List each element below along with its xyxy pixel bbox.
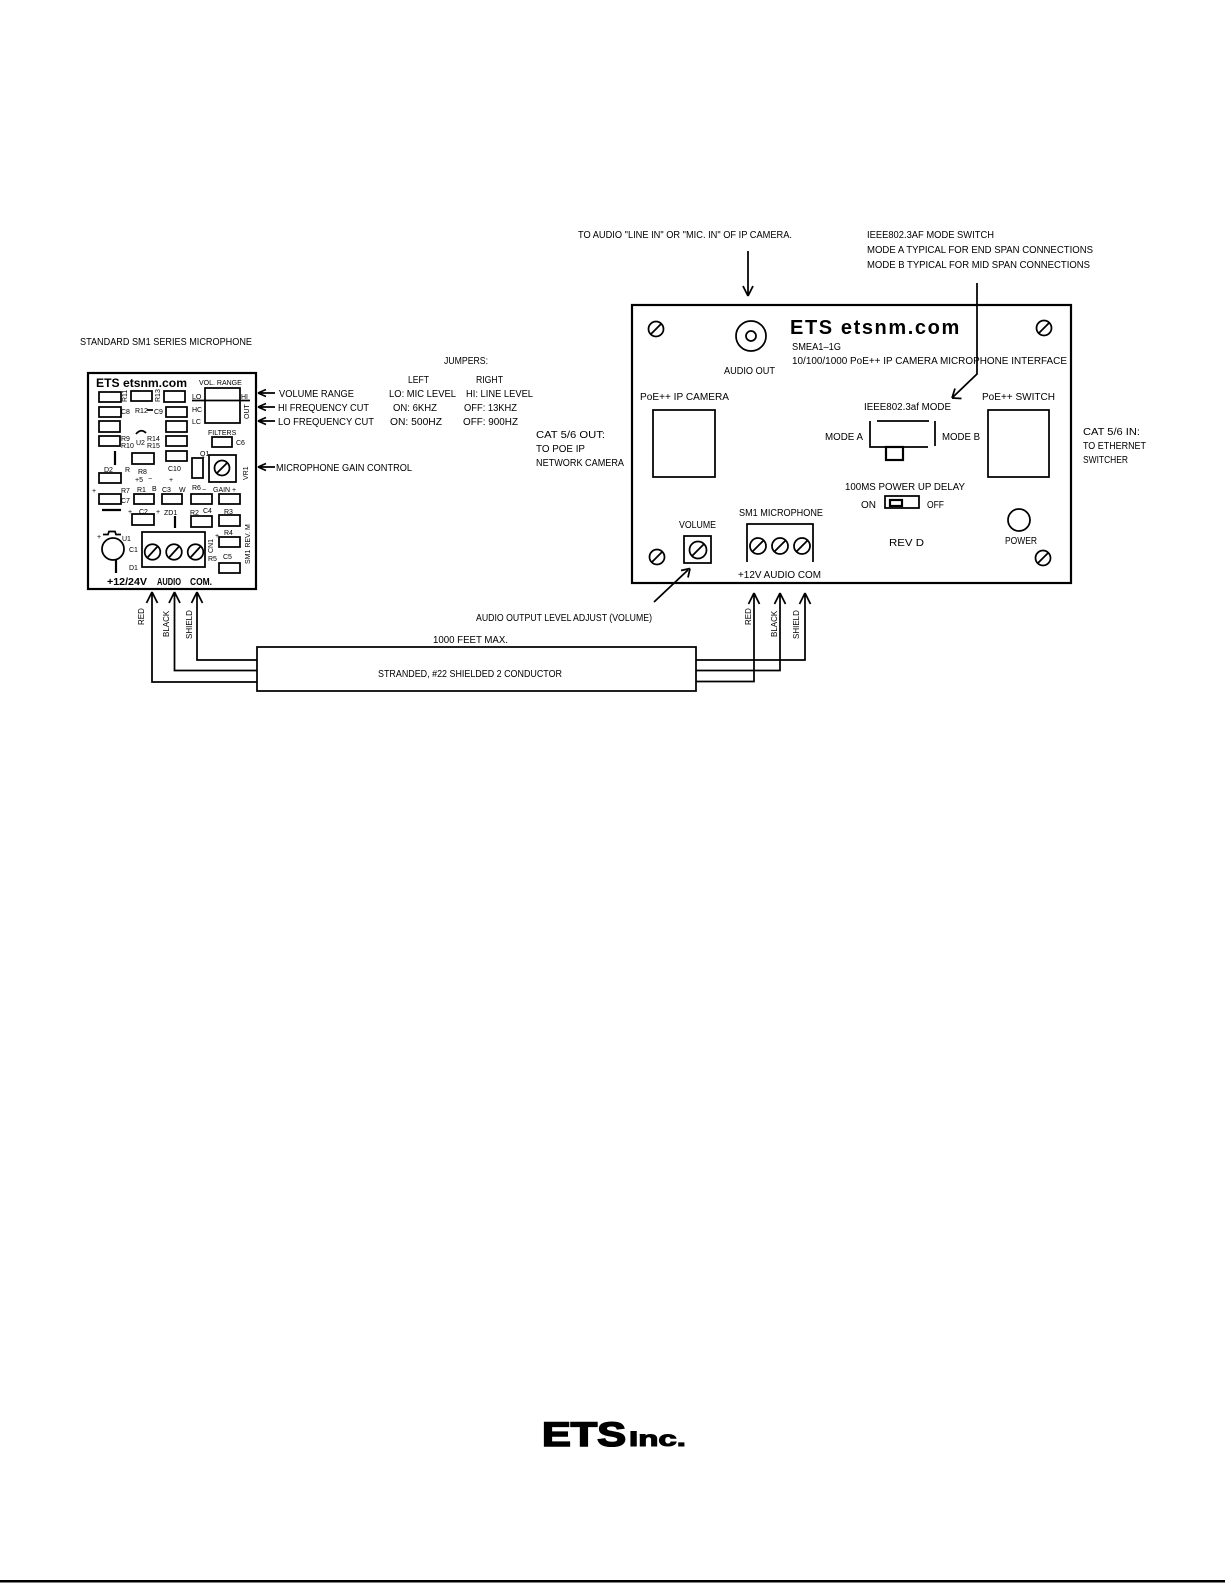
resistors R9 R10 U2 R14 R15 — [99, 431, 187, 450]
svg-text:ON: 6KHZ: ON: 6KHZ — [393, 403, 437, 414]
svg-text:100MS POWER UP DELAY: 100MS POWER UP DELAY — [845, 482, 965, 493]
svg-text:RED: RED — [744, 608, 753, 625]
svg-text:−: − — [148, 476, 152, 483]
PoE++ IP camera jack — [640, 392, 729, 477]
svg-text:OUT: OUT — [244, 404, 251, 420]
resistor R4 — [219, 530, 240, 547]
wire black right — [696, 593, 786, 671]
SM1 microphone PCB outline — [88, 373, 256, 589]
resistor R2 capacitor C4 — [190, 508, 212, 527]
screw bottom-left — [650, 550, 665, 565]
note: to audio line-in of IP camera — [578, 230, 792, 241]
svg-text:BLACK: BLACK — [770, 610, 779, 637]
svg-text:LO: MIC LEVEL: LO: MIC LEVEL — [389, 389, 456, 400]
svg-text:ETS etsnm.com: ETS etsnm.com — [790, 317, 961, 339]
wire leader arrow down to AUDIO OUT — [743, 251, 753, 296]
svg-text:AUDIO OUTPUT LEVEL ADJUST (VOL: AUDIO OUTPUT LEVEL ADJUST (VOLUME) — [476, 613, 652, 624]
svg-text:1000 FEET MAX.: 1000 FEET MAX. — [433, 635, 508, 646]
svg-text:B: B — [152, 486, 157, 493]
capacitor C3 — [162, 487, 186, 504]
svg-text:C8: C8 — [121, 409, 130, 416]
silkscreen title ETS etsnm.com — [790, 317, 1067, 367]
terminal screw +12V — [750, 538, 766, 554]
svg-text:MODE B TYPICAL FOR MID SPAN CO: MODE B TYPICAL FOR MID SPAN CONNECTIONS — [867, 260, 1090, 271]
svg-text:R13: R13 — [155, 389, 162, 402]
screw top-right — [1037, 321, 1052, 336]
screw top-left — [649, 322, 664, 337]
silkscreen SM1 REV M — [245, 524, 252, 564]
wire label red left — [137, 608, 146, 625]
annotation arrow microphone gain control — [258, 463, 412, 474]
svg-text:R10: R10 — [121, 443, 134, 450]
svg-text:TO POE IP: TO POE IP — [536, 444, 585, 455]
svg-text:+: + — [232, 487, 236, 494]
svg-text:SM1 REV. M: SM1 REV. M — [245, 524, 252, 564]
svg-text:IEEE802.3af MODE: IEEE802.3af MODE — [864, 402, 951, 413]
svg-text:C7: C7 — [121, 498, 130, 505]
svg-text:R: R — [125, 467, 130, 474]
svg-text:HI FREQUENCY CUT: HI FREQUENCY CUT — [278, 403, 369, 414]
silkscreen REV D — [889, 538, 924, 549]
note: standard SM1 series microphone — [80, 337, 252, 348]
svg-text:HC: HC — [192, 407, 202, 414]
annotation arrow volume range — [258, 389, 354, 400]
svg-text:VR1: VR1 — [243, 466, 250, 480]
wire shield right — [696, 593, 811, 660]
svg-text:ETS etsnm.com: ETS etsnm.com — [96, 376, 187, 390]
svg-text:AUDIO OUT: AUDIO OUT — [724, 366, 775, 377]
svg-text:JUMPERS:: JUMPERS: — [444, 356, 488, 367]
svg-text:LO FREQUENCY CUT: LO FREQUENCY CUT — [278, 417, 374, 428]
gain trimmer VR1 — [209, 455, 250, 482]
svg-text:R4: R4 — [224, 530, 233, 537]
svg-text:ON: 500HZ: ON: 500HZ — [390, 417, 442, 428]
power LED — [1005, 509, 1037, 547]
svg-text:U1: U1 — [122, 536, 131, 543]
svg-text:+: + — [92, 488, 96, 495]
svg-text:C4: C4 — [203, 508, 212, 515]
filler rects row3 — [99, 421, 187, 432]
svg-text:R11: R11 — [122, 390, 129, 402]
transistor Q1 — [192, 451, 209, 478]
jumpers table — [389, 356, 533, 428]
svg-text:COM.: COM. — [190, 577, 212, 588]
svg-text:C10: C10 — [168, 466, 181, 473]
PCB terminal block CN1 — [142, 532, 205, 567]
wire dash — [102, 509, 121, 511]
PCB terminal screw 2 — [166, 544, 182, 560]
svg-text:VOLUME RANGE: VOLUME RANGE — [279, 389, 354, 400]
svg-text:RED: RED — [137, 608, 146, 625]
wire label black left — [162, 610, 171, 637]
electrolytic capacitor U1/C1 — [97, 532, 138, 574]
silkscreen +5 - + — [135, 476, 173, 484]
svg-text:ZD1: ZD1 — [164, 510, 177, 517]
capacitor C7 — [92, 488, 130, 505]
resistor R3 — [219, 509, 240, 526]
filters jumper — [208, 430, 245, 447]
svg-text:D1: D1 — [129, 565, 138, 572]
PCB terminal labels — [107, 577, 212, 588]
resistor R1 — [134, 486, 157, 504]
note: audio output level adjust — [476, 569, 690, 625]
annotation arrow hi frequency cut — [258, 403, 369, 414]
resistor R6 and gain — [191, 485, 240, 504]
svg-text:C6: C6 — [236, 440, 245, 447]
svg-text:C9: C9 — [154, 409, 163, 416]
capacitor C8 R12 C9 row — [99, 407, 187, 417]
svg-text:W: W — [179, 487, 186, 494]
svg-text:Q1: Q1 — [200, 451, 209, 458]
svg-text:NETWORK CAMERA: NETWORK CAMERA — [536, 458, 624, 469]
svg-text:R5: R5 — [208, 556, 217, 563]
svg-text:AUDIO: AUDIO — [157, 577, 181, 588]
svg-text:CN1: CN1 — [208, 539, 215, 553]
svg-text:STRANDED, #22 SHIELDED 2 CONDU: STRANDED, #22 SHIELDED 2 CONDUCTOR — [378, 669, 562, 680]
note: IEEE802.3AF mode switch — [867, 230, 1093, 271]
terminal labels — [738, 570, 821, 581]
svg-text:HI: LINE LEVEL: HI: LINE LEVEL — [466, 389, 533, 400]
diode D2 — [99, 467, 121, 483]
svg-text:C5: C5 — [223, 554, 232, 561]
svg-text:R1: R1 — [137, 487, 146, 494]
svg-text:IEEE802.3AF MODE SWITCH: IEEE802.3AF MODE SWITCH — [867, 230, 994, 241]
svg-text:R15: R15 — [147, 443, 160, 450]
svg-text:SHIELD: SHIELD — [792, 610, 801, 639]
resistor R5 capacitor C5 — [208, 554, 240, 573]
svg-text:+: + — [169, 477, 173, 484]
svg-text:+: + — [156, 509, 160, 516]
capacitor C10 rect — [166, 451, 187, 473]
svg-text:MODE B: MODE B — [942, 432, 980, 443]
audio out jack J1 — [724, 321, 775, 377]
svg-text:MICROPHONE GAIN CONTROL: MICROPHONE GAIN CONTROL — [276, 463, 412, 474]
wire label red right — [744, 608, 753, 625]
svg-text:TO ETHERNET: TO ETHERNET — [1083, 441, 1146, 452]
wire black left — [169, 592, 257, 671]
svg-text:R9: R9 — [121, 436, 130, 443]
svg-text:LO: LO — [192, 394, 202, 401]
svg-text:OFF: OFF — [927, 500, 944, 511]
wire label shield left — [185, 610, 194, 639]
zener ZD1 — [156, 509, 177, 528]
svg-text:U2: U2 — [136, 440, 145, 447]
svg-text:STANDARD SM1 SERIES MICROPHONE: STANDARD SM1 SERIES MICROPHONE — [80, 337, 252, 348]
footer rule — [0, 1580, 1225, 1583]
screw bottom-right — [1036, 551, 1051, 566]
terminal screw AUDIO — [772, 538, 788, 554]
wire red right — [696, 593, 760, 682]
volume potentiometer VR — [679, 520, 716, 563]
PCB silkscreen ETS etsnm.com — [96, 376, 187, 390]
svg-text:SHIELD: SHIELD — [185, 610, 194, 639]
svg-text:+5: +5 — [135, 477, 143, 484]
wire label black right — [770, 610, 779, 637]
svg-text:C3: C3 — [162, 487, 171, 494]
interface unit SMEA1-1G enclosure — [632, 305, 1071, 583]
power up delay switch SW2 — [845, 482, 965, 511]
svg-text:ETS: ETS — [542, 1416, 626, 1454]
svg-text:MODE A: MODE A — [825, 432, 863, 443]
svg-text:OFF: 900HZ: OFF: 900HZ — [463, 417, 518, 428]
svg-text:VOL. RANGE: VOL. RANGE — [199, 380, 242, 387]
svg-text:GAIN: GAIN — [213, 487, 230, 494]
svg-text:ON: ON — [861, 500, 876, 511]
connector CN1 label — [208, 533, 219, 553]
svg-text:SWITCHER: SWITCHER — [1083, 455, 1128, 466]
wire red left — [147, 592, 258, 682]
svg-text:R12: R12 — [135, 408, 148, 415]
svg-text:POWER: POWER — [1005, 536, 1037, 547]
svg-text:R6: R6 — [192, 485, 201, 492]
svg-text:R7: R7 — [121, 488, 130, 495]
svg-text:MODE A TYPICAL FOR END SPAN CO: MODE A TYPICAL FOR END SPAN CONNECTIONS — [867, 245, 1093, 256]
logo ETS Inc — [542, 1416, 686, 1454]
annotation arrow lo frequency cut — [258, 417, 374, 428]
svg-text:+: + — [97, 534, 101, 541]
svg-text:VOLUME: VOLUME — [679, 520, 716, 531]
capacitor C2 — [128, 509, 154, 525]
svg-text:FILTERS: FILTERS — [208, 430, 237, 437]
svg-text:LC: LC — [192, 419, 201, 426]
svg-text:CAT 5/6 OUT:: CAT 5/6 OUT: — [536, 430, 605, 441]
wire shield left — [192, 592, 258, 660]
svg-text:CAT 5/6 IN:: CAT 5/6 IN: — [1083, 427, 1140, 438]
vol range jumper block — [192, 380, 251, 426]
svg-text:RIGHT: RIGHT — [476, 375, 503, 386]
svg-text:Inc.: Inc. — [629, 1428, 686, 1451]
cable: stranded 2 conductor — [257, 635, 696, 691]
svg-text:−: − — [202, 487, 206, 494]
svg-text:+12/24V: +12/24V — [107, 577, 147, 588]
wire leader from mode-switch note to switch — [952, 283, 977, 399]
note: CAT 5/6 in — [1083, 427, 1146, 466]
wire label shield right — [792, 610, 801, 639]
resistor R11 row rect — [99, 389, 185, 402]
svg-text:TO AUDIO "LINE IN" OR "MIC. IN: TO AUDIO "LINE IN" OR "MIC. IN" OF IP CA… — [578, 230, 792, 241]
svg-text:10/100/1000 PoE++ IP CAMERA MI: 10/100/1000 PoE++ IP CAMERA MICROPHONE I… — [792, 356, 1067, 367]
svg-text:LEFT: LEFT — [408, 375, 429, 386]
svg-text:BLACK: BLACK — [162, 610, 171, 637]
resistor R8 — [125, 453, 154, 476]
wire stub below R10 — [114, 451, 116, 465]
svg-text:SM1 MICROPHONE: SM1 MICROPHONE — [739, 508, 823, 519]
svg-text:HI: HI — [241, 394, 248, 401]
svg-text:PoE++ IP CAMERA: PoE++ IP CAMERA — [640, 392, 729, 403]
svg-text:OFF: 13KHZ: OFF: 13KHZ — [464, 403, 517, 414]
svg-text:R8: R8 — [138, 469, 147, 476]
svg-text:R14: R14 — [147, 436, 160, 443]
terminal screw COM — [794, 538, 810, 554]
svg-text:REV D: REV D — [889, 538, 924, 549]
SM1 microphone terminal block TB1 — [739, 508, 823, 562]
svg-text:C1: C1 — [129, 547, 138, 554]
note: CAT 5/6 out — [536, 430, 624, 469]
IEEE802.3af mode switch SW1 — [825, 402, 980, 460]
svg-text:+12V AUDIO COM: +12V AUDIO COM — [738, 570, 821, 581]
PCB terminal screw 1 — [145, 544, 161, 560]
svg-text:SMEA1–1G: SMEA1–1G — [792, 342, 841, 353]
PCB terminal screw 3 — [188, 544, 204, 560]
PoE++ switch jack — [982, 392, 1055, 477]
svg-text:PoE++ SWITCH: PoE++ SWITCH — [982, 392, 1055, 403]
svg-text:C2: C2 — [139, 509, 148, 516]
